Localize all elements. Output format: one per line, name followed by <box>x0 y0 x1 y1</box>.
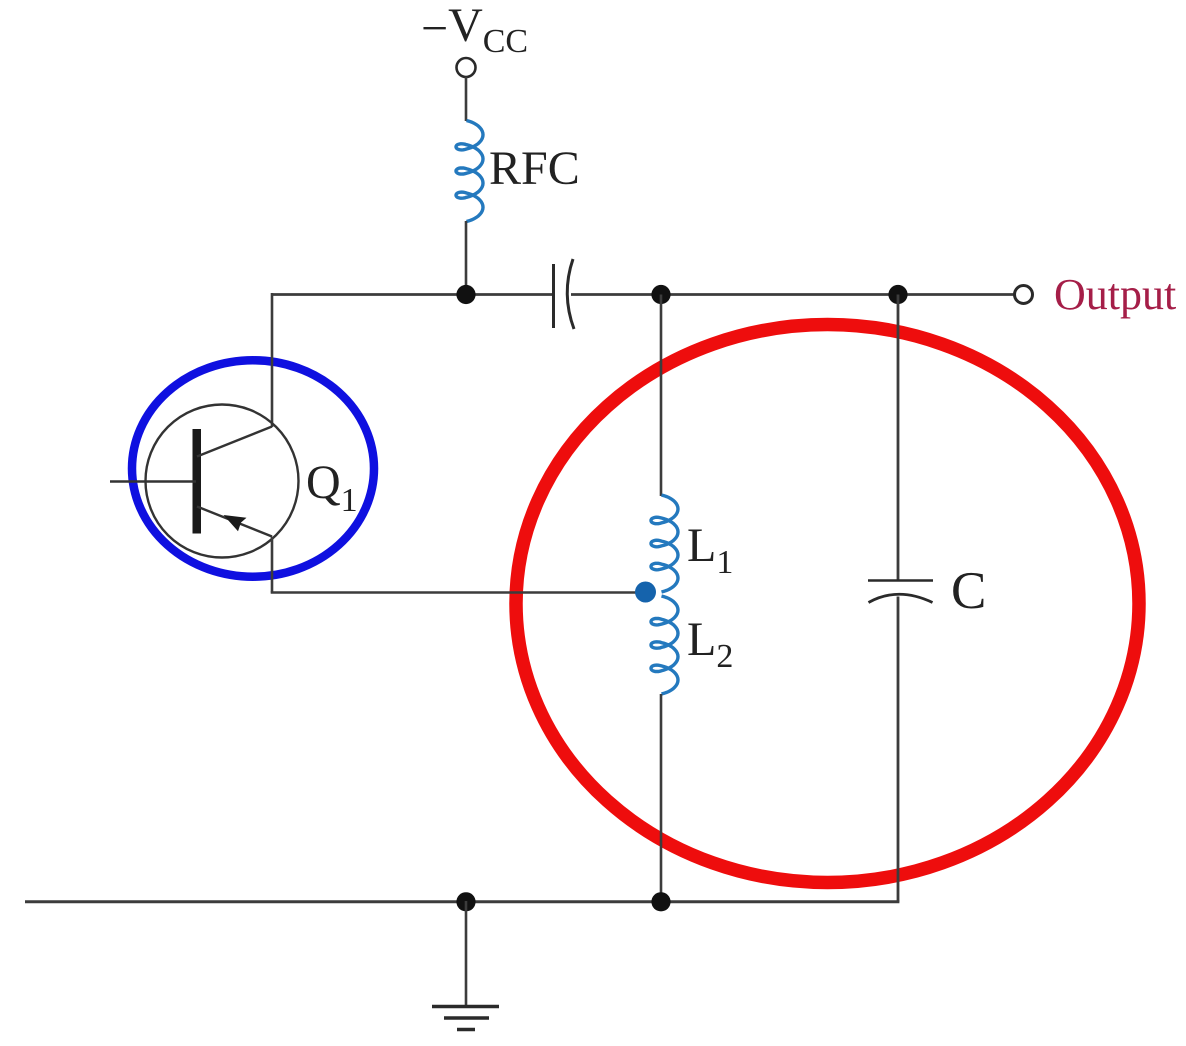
svg-text:Q1: Q1 <box>306 456 358 519</box>
inductor L2 <box>651 596 678 694</box>
power terminal -Vcc <box>457 58 476 77</box>
transistor Q1 base bar <box>193 429 202 534</box>
svg-text:C: C <box>951 562 986 620</box>
highlight circle blue (around Q1) <box>132 360 374 576</box>
wire emitter vertical <box>271 537 274 593</box>
inductor L1 <box>651 495 678 592</box>
inductor RFC <box>456 121 483 222</box>
capacitor C curved bottom plate <box>869 594 933 602</box>
junction node on rail at L1 <box>651 285 670 304</box>
wire Vcc to RFC <box>465 77 468 121</box>
svg-text:RFC: RFC <box>489 142 580 195</box>
transistor Q1 body circle <box>146 405 299 558</box>
svg-text:−VCC: −VCC <box>421 0 528 60</box>
junction node bottom at L2 <box>651 892 670 911</box>
transistor Q1 emitter arrow <box>224 515 247 531</box>
wire rail to L1 <box>660 295 663 497</box>
junction node on rail at RFC <box>456 285 475 304</box>
transistor Q1 base lead <box>110 480 196 482</box>
wire collector vertical <box>271 293 274 427</box>
transistor Q1 emitter lead <box>197 507 272 537</box>
wire RFC to rail <box>465 221 468 295</box>
capacitor Cc right curved plate <box>567 259 574 329</box>
svg-text:L1: L1 <box>687 519 733 581</box>
svg-text:Output: Output <box>1054 270 1176 319</box>
junction node on rail at C <box>888 285 907 304</box>
wire L2 to bottom rail <box>660 694 663 902</box>
tap node between L1 and L2 <box>635 582 656 603</box>
transistor Q1 collector lead <box>197 427 272 457</box>
capacitor Cc left plate <box>552 264 555 328</box>
wire emitter to tap <box>271 591 643 594</box>
wire C column lower <box>897 597 900 902</box>
ground bar 2 <box>444 1016 489 1020</box>
svg-text:L2: L2 <box>687 613 733 675</box>
ground bar 1 <box>432 1005 499 1009</box>
capacitor C top plate <box>868 579 933 582</box>
wire top rail right segment <box>571 293 1015 296</box>
wire C column upper <box>897 295 900 581</box>
highlight circle red (tank circuit) <box>516 325 1139 883</box>
ground lead <box>465 901 468 1006</box>
junction node bottom at ground <box>456 892 475 911</box>
wire bottom rail <box>25 900 899 903</box>
ground bar 3 <box>457 1028 475 1032</box>
output terminal <box>1015 286 1033 304</box>
wire top rail left segment <box>272 293 554 296</box>
